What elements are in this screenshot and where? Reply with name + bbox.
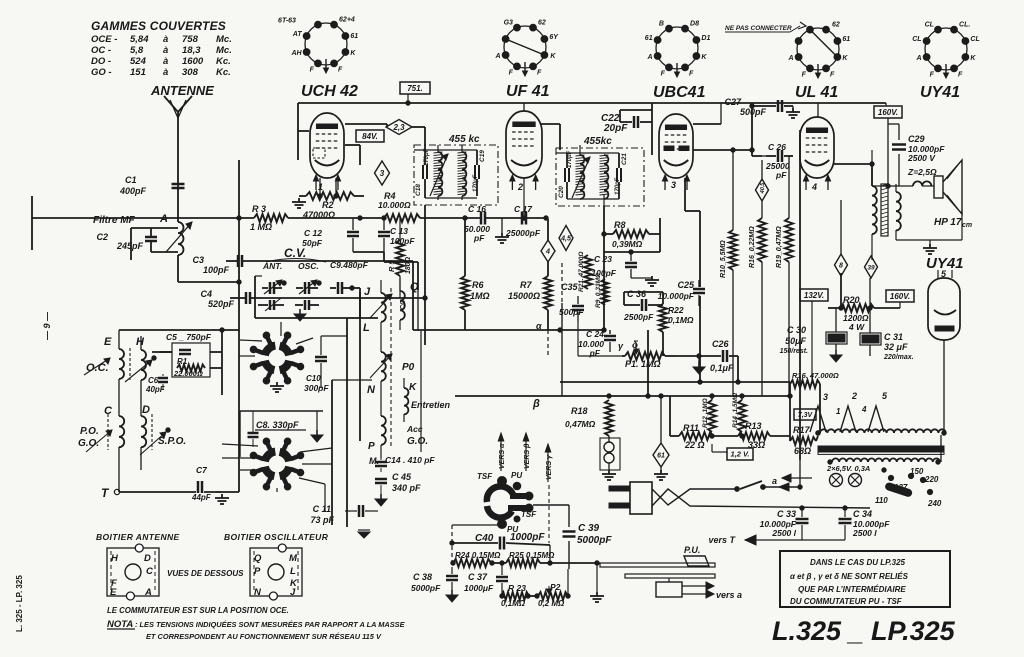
svg-text:H: H xyxy=(111,553,119,564)
svg-text:P0: P0 xyxy=(402,362,415,373)
svg-text:0,1MΩ: 0,1MΩ xyxy=(668,315,694,325)
svg-text:0,2 MΩ: 0,2 MΩ xyxy=(538,599,565,608)
switch PU TSF xyxy=(477,471,537,534)
label C8 xyxy=(240,411,323,457)
svg-text:Q: Q xyxy=(254,553,262,564)
svg-text:6T-63: 6T-63 xyxy=(278,18,296,25)
svg-text:1600: 1600 xyxy=(182,56,204,67)
svg-text:OCE -: OCE - xyxy=(91,34,117,45)
wire C12 C13 bottom xyxy=(353,252,418,290)
label entretien xyxy=(411,400,451,410)
pickup PU head xyxy=(684,545,709,566)
svg-text:Mc.: Mc. xyxy=(216,34,232,45)
svg-text:1MΩ: 1MΩ xyxy=(470,291,490,301)
svg-text:32 μF: 32 μF xyxy=(884,342,908,352)
capacitor C27 xyxy=(724,97,793,117)
resistor R10 5,5M xyxy=(720,148,737,396)
svg-text:500pF: 500pF xyxy=(740,107,767,117)
svg-text:pF: pF xyxy=(473,233,485,243)
svg-text:β: β xyxy=(532,398,540,410)
svg-text:Filtre MF: Filtre MF xyxy=(93,215,136,226)
wire T1 leads xyxy=(414,145,477,198)
svg-text:α: α xyxy=(536,321,542,331)
title L325 LP325 xyxy=(772,616,956,646)
svg-text:751.: 751. xyxy=(407,84,423,93)
svg-text:E: E xyxy=(104,336,112,348)
svg-text:R2: R2 xyxy=(322,200,334,210)
label HP 17cm xyxy=(934,217,972,229)
svg-text:LE COMMUTATEUR EST SUR LA P: LE COMMUTATEUR EST SUR LA POSITION OCE. xyxy=(107,606,289,615)
wire bus y382 xyxy=(560,380,790,384)
ground P1 wire xyxy=(693,354,705,374)
core dashes EH xyxy=(129,348,131,380)
ground C7 xyxy=(215,492,229,504)
svg-text:C 39: C 39 xyxy=(578,523,600,534)
svg-text:CL: CL xyxy=(912,36,921,43)
svg-text:F: F xyxy=(958,71,963,78)
svg-text:C 16: C 16 xyxy=(468,204,486,214)
svg-text:110: 110 xyxy=(875,496,888,505)
wire lamp box xyxy=(600,438,620,470)
coil J xyxy=(370,280,392,352)
ground C38 xyxy=(446,582,458,602)
label OC xyxy=(84,358,110,375)
svg-text:C19: C19 xyxy=(479,150,486,162)
voltage box 1,2V xyxy=(727,448,753,460)
svg-text:R1: R1 xyxy=(177,357,188,366)
svg-text:F: F xyxy=(338,66,343,73)
note box LP325 xyxy=(780,551,950,607)
trimmer caps below xyxy=(258,298,319,321)
label PO GO left xyxy=(78,426,112,452)
ground below C16 xyxy=(495,218,509,243)
svg-text:340 pF: 340 pF xyxy=(392,483,421,493)
svg-text:C25: C25 xyxy=(677,280,695,290)
capacitor C30 electrolytic xyxy=(780,308,847,355)
diamond 8 xyxy=(835,200,848,276)
svg-text:C1: C1 xyxy=(125,175,137,185)
wire y356 row xyxy=(0,0,1,1)
pickup arm lines xyxy=(600,563,715,578)
svg-text:UY41: UY41 xyxy=(920,84,960,101)
svg-text:4 W: 4 W xyxy=(848,322,865,332)
svg-text:UBC41: UBC41 xyxy=(653,84,706,101)
svg-text:1000pF: 1000pF xyxy=(510,532,545,543)
svg-text:C14 . 410 pF: C14 . 410 pF xyxy=(385,455,435,465)
svg-text:BOITIER OSCILLATEUR: BOITIER OSCILLATEUR xyxy=(224,532,329,542)
label a arrows xyxy=(772,474,812,491)
svg-text:D: D xyxy=(144,553,151,564)
svg-text:vers a: vers a xyxy=(716,590,742,600)
resistor R14 vertical xyxy=(732,393,746,432)
label M C14 xyxy=(369,455,435,466)
wire C26 node xyxy=(750,103,766,156)
svg-text:D: D xyxy=(142,404,150,416)
svg-text:C21: C21 xyxy=(621,153,628,165)
resistor R7 xyxy=(508,276,552,310)
svg-text:TSF: TSF xyxy=(521,510,537,519)
resistor R12 vertical xyxy=(702,398,716,432)
svg-text:ANTENNE: ANTENNE xyxy=(150,83,214,98)
svg-text:C 13: C 13 xyxy=(390,226,408,236)
svg-text:P.O.: P.O. xyxy=(80,426,99,437)
resistor R15 47000 xyxy=(790,371,839,388)
resistor R17 xyxy=(790,425,816,456)
capacitor C29 xyxy=(888,124,945,186)
tube socket UBC41 xyxy=(645,21,711,78)
svg-text:22 Ω: 22 Ω xyxy=(684,440,705,450)
coil H xyxy=(141,336,146,416)
ground C27 xyxy=(786,106,800,118)
svg-text:K: K xyxy=(350,50,356,57)
svg-text:C.V.: C.V. xyxy=(284,246,306,260)
svg-text:cm: cm xyxy=(962,222,972,229)
wire UCH42 plate xyxy=(345,124,425,145)
wire grid left xyxy=(298,131,360,165)
wire switch up xyxy=(798,460,802,489)
capacitor C6 xyxy=(145,374,168,394)
resistor R19 0,47M xyxy=(776,156,793,396)
svg-text:C 11: C 11 xyxy=(313,504,331,514)
voltage box 160V top xyxy=(874,106,902,118)
svg-text:0,39MΩ: 0,39MΩ xyxy=(612,239,643,249)
svg-text:R10_5,5MΩ: R10_5,5MΩ xyxy=(720,240,727,278)
svg-text:61: 61 xyxy=(842,36,850,43)
svg-text:K: K xyxy=(701,54,707,61)
svg-text:C20: C20 xyxy=(558,186,565,198)
diamond 2-3 xyxy=(386,120,412,135)
ground diamond 61 xyxy=(654,467,668,480)
label Acc GO xyxy=(406,424,428,447)
IF transformer T1 box xyxy=(414,134,498,205)
svg-text:2,3: 2,3 xyxy=(392,123,405,132)
svg-text:QUE PAR L’INTERMÉDIAIRE: QUE PAR L’INTERMÉDIAIRE xyxy=(798,585,906,594)
svg-text:40,5: 40,5 xyxy=(760,182,766,195)
capacitor C1 xyxy=(119,175,185,196)
svg-text:K: K xyxy=(409,382,417,393)
capacitor C10 xyxy=(304,336,347,393)
frequency ranges table xyxy=(91,34,232,78)
mains plug xyxy=(609,482,652,514)
wire vertical x418 xyxy=(417,290,419,331)
wire UF41 plate top xyxy=(524,103,560,150)
svg-text:pF: pF xyxy=(775,170,787,180)
coil L xyxy=(370,352,392,416)
resistor R21 vertical xyxy=(578,252,592,293)
svg-text:Mc.: Mc. xyxy=(216,45,232,56)
rotary switch antenna wafer xyxy=(250,332,304,384)
capacitor C3 xyxy=(192,255,413,275)
svg-text:100pF: 100pF xyxy=(203,265,230,275)
wire C5 box leads xyxy=(152,330,222,395)
svg-text:R16. 47.000Ω: R16. 47.000Ω xyxy=(792,371,839,380)
svg-text:C 34: C 34 xyxy=(853,509,872,519)
svg-text:NOTA: NOTA xyxy=(107,619,133,630)
label UL41 xyxy=(795,84,838,101)
svg-text:CC: CC xyxy=(400,299,407,310)
svg-text:C4: C4 xyxy=(200,289,212,299)
pilot lamp 2 xyxy=(849,474,862,487)
svg-text:R8: R8 xyxy=(614,220,626,230)
wire antenna to coil A xyxy=(177,188,179,222)
svg-text:K: K xyxy=(842,55,848,62)
svg-text:C29: C29 xyxy=(908,134,925,144)
capacitor C11 xyxy=(310,504,378,525)
svg-text:C7: C7 xyxy=(196,465,208,475)
capacitor C37 xyxy=(464,563,508,594)
svg-text:O.C.: O.C. xyxy=(86,362,109,374)
svg-text:R 5: R 5 xyxy=(387,260,396,273)
capacitor C39 xyxy=(533,505,612,569)
vers alpha arrow xyxy=(498,433,506,471)
resistor R24 xyxy=(451,559,494,567)
label J xyxy=(364,286,391,446)
label filtre MF xyxy=(93,213,168,226)
mains taps xyxy=(875,435,942,508)
capacitor C17 xyxy=(505,204,541,238)
svg-text:K: K xyxy=(970,55,976,62)
svg-text:J: J xyxy=(290,587,296,598)
wire bus y331 xyxy=(558,328,610,334)
variable cap ANT xyxy=(262,280,286,294)
capacitor C13 xyxy=(378,216,415,252)
svg-text:160V.: 160V. xyxy=(890,292,910,301)
svg-text:245pF: 245pF xyxy=(116,241,144,251)
svg-text:0,1MΩ: 0,1MΩ xyxy=(501,599,526,608)
svg-text:R7: R7 xyxy=(520,280,532,290)
wire CV frame xyxy=(255,276,378,318)
svg-text:ET CORRESPONDENT AU FONCTIO: ET CORRESPONDENT AU FONCTIONNEMENT SUR R… xyxy=(146,632,382,641)
label vues de dessous xyxy=(167,569,244,578)
wire left drop xyxy=(130,228,132,260)
svg-text:M: M xyxy=(289,553,298,564)
svg-text:A: A xyxy=(788,55,794,62)
label UF41 xyxy=(506,83,550,100)
capacitor C4 xyxy=(200,289,262,309)
svg-text:4: 4 xyxy=(811,182,817,192)
resistor R22 vertical xyxy=(659,304,694,332)
resistor R2 xyxy=(302,192,354,220)
svg-text:2500pF: 2500pF xyxy=(623,312,654,322)
label D xyxy=(142,404,150,416)
resistor R5 vertical xyxy=(387,240,412,276)
svg-text:F: F xyxy=(930,71,935,78)
svg-text:C 26: C 26 xyxy=(768,142,786,152)
svg-text:5,8: 5,8 xyxy=(130,45,144,56)
vers beta arrow xyxy=(523,433,531,471)
svg-text:400pF: 400pF xyxy=(119,186,147,196)
svg-text:ANT.: ANT. xyxy=(262,261,282,271)
tube socket UCH42 xyxy=(278,17,358,74)
T2 secondary coil xyxy=(600,155,609,199)
voltage box 7,3V xyxy=(794,409,816,420)
wire C2 connections xyxy=(131,228,178,252)
box C5 R1 xyxy=(166,332,212,378)
svg-text:DANS LE CAS DU LP.325: DANS LE CAS DU LP.325 xyxy=(810,558,906,567)
wire speaker return xyxy=(896,210,962,244)
svg-text:Z=2,5Ω: Z=2,5Ω xyxy=(907,167,937,177)
capacitor C40 xyxy=(450,525,550,567)
svg-text:L: L xyxy=(290,566,296,577)
label PO mid xyxy=(402,362,415,373)
svg-text:F: F xyxy=(509,69,514,76)
svg-text:TSF: TSF xyxy=(477,472,493,481)
voltage box 84V xyxy=(356,130,384,142)
svg-text:S.P.O.: S.P.O. xyxy=(158,436,186,447)
svg-text:2: 2 xyxy=(851,391,857,401)
svg-text:22.000Ω: 22.000Ω xyxy=(173,369,203,378)
label boitier oscillateur xyxy=(224,532,329,542)
svg-text:P: P xyxy=(254,566,261,577)
resistor R3 xyxy=(250,204,288,232)
svg-text:1000μF: 1000μF xyxy=(464,583,494,593)
svg-text:150/rest.: 150/rest. xyxy=(780,348,808,355)
label UY41 right xyxy=(926,255,964,279)
svg-text:UF 41: UF 41 xyxy=(506,83,550,100)
wire UY41 down xyxy=(943,340,945,432)
svg-text:CL.: CL. xyxy=(959,22,970,29)
tube socket UF41 xyxy=(495,20,560,77)
wire misc right xyxy=(0,0,1,1)
svg-text:P: P xyxy=(368,441,375,452)
svg-text:CL: CL xyxy=(970,36,979,43)
vers T arrow xyxy=(708,535,845,545)
coil C xyxy=(119,416,124,490)
svg-text:151: 151 xyxy=(130,67,146,78)
svg-text:C 36: C 36 xyxy=(627,289,647,299)
svg-text:VERS β: VERS β xyxy=(524,443,531,469)
svg-text:R 23: R 23 xyxy=(508,583,526,593)
svg-text:C 38: C 38 xyxy=(413,572,432,582)
svg-text:R21. 47.000Ω: R21. 47.000Ω xyxy=(578,252,585,293)
svg-text:vers T: vers T xyxy=(708,535,736,545)
svg-text:R24 0,15MΩ: R24 0,15MΩ xyxy=(455,551,501,560)
svg-text:20pF: 20pF xyxy=(603,123,628,134)
svg-text:P.U.: P.U. xyxy=(684,545,700,555)
svg-text:3: 3 xyxy=(671,180,676,190)
resistor R11 xyxy=(679,423,713,450)
wire T row xyxy=(119,330,239,492)
svg-text:4,5: 4,5 xyxy=(560,236,571,243)
svg-text:62: 62 xyxy=(538,20,546,27)
label Q xyxy=(410,281,419,293)
svg-text:C 37: C 37 xyxy=(468,572,488,582)
side text page 9 xyxy=(42,311,52,341)
svg-text:C 12: C 12 xyxy=(304,228,322,238)
svg-text:F: F xyxy=(537,69,542,76)
svg-text:C6: C6 xyxy=(148,376,159,385)
output transformer core xyxy=(881,184,888,236)
voltage box 751 xyxy=(400,82,430,103)
svg-text:1 MΩ: 1 MΩ xyxy=(250,222,272,232)
svg-text:J: J xyxy=(364,286,371,298)
output transformer secondary xyxy=(896,184,901,240)
svg-text:300pF: 300pF xyxy=(304,383,329,393)
dial lamps xyxy=(604,436,614,470)
svg-text:Acc: Acc xyxy=(406,424,423,434)
gammes couvertes table title xyxy=(91,19,226,33)
coil K xyxy=(404,331,421,452)
wire C36 R22 loop xyxy=(624,292,663,356)
wire C4 row xyxy=(262,296,427,300)
svg-text:F: F xyxy=(802,71,807,78)
wire osc rows xyxy=(0,0,1,1)
svg-text:γ: γ xyxy=(618,341,624,351)
svg-text:VERS α: VERS α xyxy=(499,443,506,469)
wire vertical x560 xyxy=(561,263,563,396)
wire R8 frame xyxy=(602,206,660,330)
svg-text:Kc.: Kc. xyxy=(216,56,231,67)
svg-text:Entretien: Entretien xyxy=(411,400,451,410)
svg-text:VERS γ: VERS γ xyxy=(546,454,553,480)
svg-text:à: à xyxy=(163,34,168,45)
svg-text:α et β , γ et δ NE SONT RELI: α et β , γ et δ NE SONT RELIÉS xyxy=(790,572,909,581)
svg-text:25000pF: 25000pF xyxy=(505,228,541,238)
svg-text:R17: R17 xyxy=(793,425,811,435)
tube socket UL41 xyxy=(788,22,851,79)
svg-text:R16_0,22MΩ: R16_0,22MΩ xyxy=(749,226,756,268)
ground below R2 xyxy=(292,198,306,208)
svg-text:Kc.: Kc. xyxy=(216,67,231,78)
svg-text:F: F xyxy=(830,71,835,78)
resistor R9 vertical xyxy=(595,273,609,308)
svg-text:N: N xyxy=(367,384,376,396)
svg-text:73 pF: 73 pF xyxy=(310,515,334,525)
mains switch xyxy=(735,481,800,491)
svg-text:C8. 330pF: C8. 330pF xyxy=(256,420,299,430)
wire C22 loop xyxy=(620,103,652,155)
svg-text:A: A xyxy=(144,587,152,598)
potentiometer P2 xyxy=(538,569,570,608)
svg-text:520pF: 520pF xyxy=(208,299,235,309)
resistor R23 xyxy=(500,592,539,600)
wire UF41 grid drop xyxy=(522,178,526,220)
svg-text:2500 l: 2500 l xyxy=(771,528,796,538)
capacitor C14 xyxy=(375,458,387,472)
wire bottom verticals xyxy=(0,0,1,1)
coil E xyxy=(119,330,124,416)
wire UL41 connections xyxy=(800,103,874,460)
vers gamma arrow xyxy=(545,444,553,543)
svg-text:3: 3 xyxy=(823,392,828,402)
label heater winding xyxy=(826,464,870,473)
label boitier antenne xyxy=(96,532,180,542)
svg-text:AH: AH xyxy=(290,50,302,57)
svg-text:524: 524 xyxy=(130,56,147,67)
svg-text:160V.: 160V. xyxy=(878,108,898,117)
resistor R6 xyxy=(461,276,490,310)
svg-text:R6: R6 xyxy=(472,280,484,290)
label R23 xyxy=(501,583,526,608)
tube UY41 V5 xyxy=(928,270,960,340)
wire UF41 mid frame xyxy=(400,205,560,356)
svg-text:OSC.: OSC. xyxy=(298,261,319,271)
capacitor C35 xyxy=(559,282,624,356)
potentiometer P1 xyxy=(618,340,676,369)
svg-text:D1: D1 xyxy=(701,35,710,42)
svg-text:4: 4 xyxy=(545,247,551,256)
svg-text:C: C xyxy=(146,566,153,577)
svg-text:39: 39 xyxy=(867,264,875,271)
svg-text:R18: R18 xyxy=(571,406,588,416)
capacitor C26b xyxy=(676,339,740,384)
svg-text:: LES TENSIONS INDIQUÉES SON: : LES TENSIONS INDIQUÉES SONT MESURÉES P… xyxy=(135,620,406,629)
svg-text:180Ω: 180Ω xyxy=(405,256,412,274)
tube UCH42 V1 xyxy=(310,113,344,192)
svg-text:DO -: DO - xyxy=(91,56,111,67)
svg-text:132V.: 132V. xyxy=(804,291,824,300)
wire bottom rc xyxy=(0,0,1,1)
